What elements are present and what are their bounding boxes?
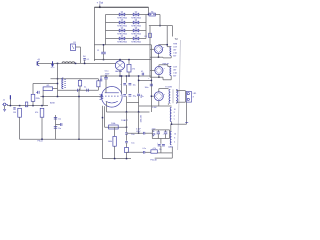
svg-text:4: 4 (174, 115, 175, 117)
svg-text:100u: 100u (145, 87, 149, 89)
svg-text:+: + (155, 133, 156, 135)
svg-text:16: 16 (174, 109, 176, 111)
svg-text:0.1: 0.1 (141, 71, 143, 73)
svg-text:16: 16 (174, 134, 176, 136)
svg-text:+: + (157, 142, 158, 144)
svg-text:400V: 400V (105, 73, 110, 75)
svg-text:10u: 10u (133, 84, 136, 86)
svg-text:+: + (135, 96, 136, 98)
svg-text:4.7k: 4.7k (152, 148, 155, 150)
svg-text:0.1u: 0.1u (142, 148, 146, 150)
svg-text:8: 8 (174, 138, 175, 140)
svg-text:4: 4 (174, 142, 175, 144)
svg-text:10u: 10u (131, 134, 134, 136)
svg-text:47k: 47k (35, 112, 38, 114)
svg-text:+ Out: + Out (97, 0, 104, 4)
svg-text:C1: C1 (97, 50, 99, 52)
svg-text:12AU7: 12AU7 (168, 145, 173, 148)
svg-text:PS-14: PS-14 (38, 141, 43, 143)
svg-text:4,7u: 4,7u (51, 67, 55, 69)
svg-text:22u: 22u (159, 149, 162, 151)
svg-text:8: 8 (174, 112, 175, 114)
svg-text:10u: 10u (58, 119, 61, 121)
svg-text:100k 2W: 100k 2W (141, 115, 143, 123)
svg-text:8: 8 (178, 92, 179, 94)
svg-text:12AX7: 12AX7 (121, 119, 128, 122)
svg-text:100k: 100k (108, 141, 112, 143)
svg-text:0.1uF: 0.1uF (152, 107, 156, 109)
svg-text:T3 25W: T3 25W (165, 87, 172, 89)
svg-text:10u: 10u (58, 128, 61, 130)
svg-text:NTE5291A: NTE5291A (117, 41, 127, 44)
svg-text:+: + (163, 133, 164, 135)
svg-text:0A2WA: 0A2WA (115, 70, 122, 73)
svg-text:0.1u: 0.1u (141, 95, 143, 99)
svg-text:100k: 100k (111, 123, 115, 125)
svg-text:0,1: 0,1 (84, 87, 86, 89)
svg-text:0.1u: 0.1u (105, 71, 109, 73)
svg-text:0,1: 0,1 (87, 59, 90, 61)
svg-text:4: 4 (178, 96, 179, 98)
svg-text:10u: 10u (131, 143, 134, 145)
svg-text:T2: T2 (175, 37, 179, 41)
svg-text:220k: 220k (36, 98, 40, 100)
svg-text:8: 8 (193, 97, 194, 99)
svg-text:NTE5291A: NTE5291A (131, 41, 141, 44)
svg-text:1M: 1M (13, 112, 16, 114)
svg-text:27k: 27k (132, 68, 135, 70)
svg-text:PS-14B: PS-14B (150, 160, 157, 162)
svg-text:K05B: K05B (50, 103, 55, 105)
